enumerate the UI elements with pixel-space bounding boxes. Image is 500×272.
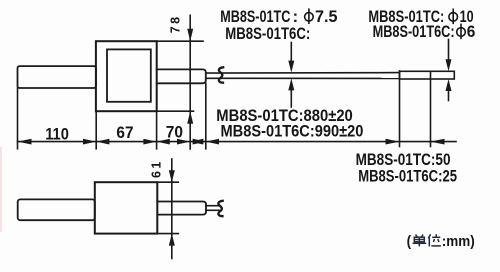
phi7.5 arrow line upper (290, 43, 292, 67)
side break squiggle (218, 201, 222, 216)
extension line sensing point (430, 71, 432, 146)
connector bar (110mm) (18, 66, 97, 88)
svg-text:70: 70 (166, 123, 183, 141)
unit note (tan-i mm) (407, 233, 475, 250)
side probe bottom line (206, 209, 219, 211)
arrow phi7.5 up (288, 78, 294, 90)
svg-text::: : (293, 8, 299, 26)
arrow pair at body left (83, 139, 96, 145)
cable top line (206, 72, 400, 75)
arrow phi10 down (446, 59, 452, 71)
cable gland cap (157, 69, 206, 83)
arrow 78 bottom up (187, 111, 193, 124)
kanji I (kurai) (428, 234, 441, 246)
side connector bar (18, 199, 95, 220)
side probe top line (206, 205, 219, 207)
dim 78 vertical line (189, 15, 191, 149)
body top edge extension (157, 40, 203, 42)
arrow pair at cap end (193, 139, 206, 145)
arrow at probe start (386, 139, 400, 145)
svg-text:(: ( (407, 233, 412, 250)
sensor body inner window (107, 49, 151, 101)
phi10 arrow line upper (448, 40, 450, 66)
side body (95, 182, 158, 233)
body bottom edge extension (157, 110, 194, 112)
sensor body outer (96, 41, 157, 111)
horizontal dimension line (18, 141, 457, 143)
extension line probe start (399, 71, 401, 147)
arrow 61 down (169, 170, 175, 182)
extension line left end (17, 88, 19, 149)
side body bottom extension (157, 233, 178, 235)
svg-text:67: 67 (116, 124, 133, 142)
svg-text:110: 110 (45, 126, 69, 144)
arrow pair at body right (143, 139, 156, 145)
probe sheath (400, 71, 455, 79)
phi symbol 10 (449, 9, 458, 25)
svg-text:MB8S-01TC: MB8S-01TC (220, 8, 290, 26)
extension line body left (95, 111, 97, 149)
svg-text:6: 6 (467, 23, 476, 41)
arrow phi7.5 down (288, 61, 294, 73)
side body top extension (157, 181, 178, 183)
cable break squiggle (219, 67, 223, 82)
arrowheads (18, 29, 452, 246)
svg-text:7.5: 7.5 (315, 8, 338, 26)
arrow at sensing point (431, 139, 445, 145)
svg-text:MB8S-01T6C:: MB8S-01T6C: (373, 23, 455, 41)
phi10 arrow line lower (448, 85, 450, 101)
phi symbol 6 (457, 24, 466, 40)
arrow phi10 up (446, 79, 452, 91)
cable bottom line (206, 77, 400, 79)
scan smudge left edge (0, 147, 2, 232)
svg-text:MB8S-01T6C:25: MB8S-01T6C:25 (358, 168, 457, 186)
arrow pair at 78 line (177, 139, 190, 145)
svg-text:78: 78 (168, 14, 182, 33)
extension line body right (156, 111, 158, 149)
svg-text:MB8S-01T6C:: MB8S-01T6C: (225, 25, 310, 43)
arrow 78 top down (187, 29, 193, 42)
kanji TAN (413, 235, 427, 247)
svg-text:MB8S-01TC:50: MB8S-01TC:50 (356, 151, 451, 169)
arrow 61 up (169, 234, 175, 246)
svg-text:MB8S-01T6C:990±20: MB8S-01T6C:990±20 (221, 123, 364, 141)
svg-text:61: 61 (150, 159, 164, 178)
side cable gland (157, 202, 206, 215)
phi7.5 arrow line lower (290, 85, 292, 107)
phi symbol 7.5 (305, 8, 314, 24)
arrow 110 left (18, 139, 32, 145)
extension line cap end (205, 83, 207, 149)
svg-text::mm): :mm) (442, 233, 475, 250)
dim 61 vertical line (171, 159, 173, 259)
